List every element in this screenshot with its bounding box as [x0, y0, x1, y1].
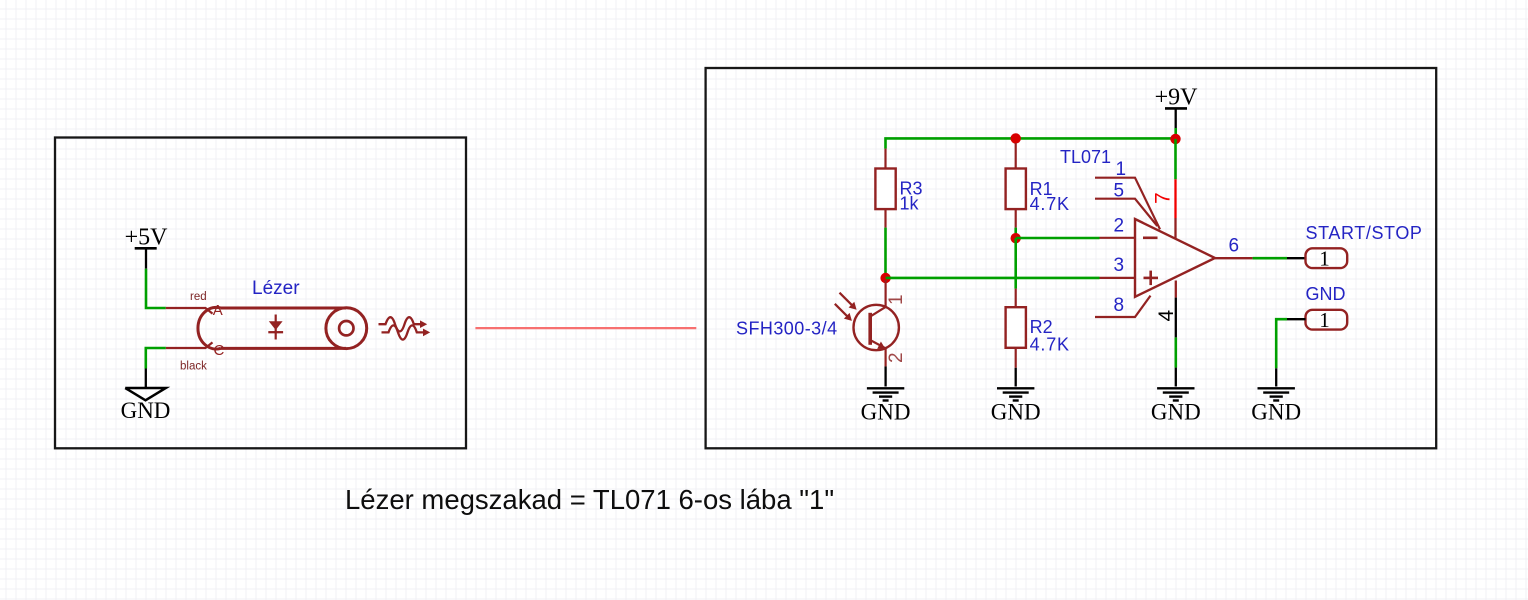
junction dot at R1 top: [1011, 133, 1021, 143]
svg-text:5: 5: [1114, 181, 1125, 202]
wire R3 bottom to node: [884, 228, 887, 279]
resistor R3: [875, 149, 922, 228]
svg-text:TL071: TL071: [1060, 147, 1111, 167]
svg-text:1k: 1k: [900, 194, 920, 214]
svg-text:START/STOP: START/STOP: [1306, 223, 1423, 243]
right frame box: [706, 68, 1437, 448]
phototransistor SFH300-3/4: [854, 280, 899, 366]
svg-text:red: red: [190, 291, 207, 303]
svg-text:4: 4: [1155, 310, 1178, 322]
connector GND pin 1: [1306, 308, 1348, 332]
op-amp pin 7 (V+): [1152, 139, 1176, 238]
svg-text:4.7K: 4.7K: [1030, 194, 1070, 214]
ground GND (left box, triangle style): [121, 388, 171, 423]
op-amp pin 8: [1095, 295, 1151, 317]
op-amp pin 4 (V-): [1155, 281, 1178, 387]
SFH pin number 2: [886, 352, 907, 363]
wire node to op-amp pin 3: [886, 277, 1100, 280]
op-amp pin 1: [1095, 159, 1160, 229]
label SFH300-3/4: [736, 319, 838, 339]
svg-text:6: 6: [1229, 236, 1240, 257]
junction dot at +9V: [1170, 134, 1180, 144]
label red: [190, 291, 207, 303]
wire node to op-amp pin 2: [1016, 237, 1100, 240]
svg-text:Lézer: Lézer: [252, 278, 300, 299]
op-amp pin 6 output: [1215, 236, 1253, 259]
svg-text:Lézer megszakad = TL071 6-os l: Lézer megszakad = TL071 6-os lába "1": [345, 484, 834, 515]
svg-text:8: 8: [1114, 295, 1125, 316]
op-amp U1 TL071: [1135, 219, 1215, 297]
resistor R2: [1006, 289, 1070, 368]
svg-text:GND: GND: [121, 398, 171, 423]
supply +5V: [125, 225, 169, 269]
svg-text:GND: GND: [861, 400, 911, 425]
laser anode pin: [166, 308, 213, 314]
label GND (connector): [1306, 284, 1346, 304]
ground GND (under SFH): [861, 388, 911, 424]
wire SFH emitter to GND: [884, 366, 886, 386]
wire R1 bottom to node: [1014, 228, 1017, 239]
ground GND (rightmost): [1251, 388, 1301, 424]
SFH pin number 1: [886, 294, 907, 305]
svg-text:7: 7: [1152, 192, 1175, 204]
wire R2 to GND: [1015, 368, 1017, 387]
svg-text:4.7K: 4.7K: [1030, 334, 1070, 354]
svg-text:GND: GND: [1306, 284, 1346, 304]
wire output to START/STOP: [1253, 257, 1306, 260]
wire +5V to laser anode: [146, 269, 166, 308]
label START/STOP: [1306, 223, 1423, 243]
svg-text:GND: GND: [991, 400, 1041, 425]
svg-text:SFH300-3/4: SFH300-3/4: [736, 319, 838, 339]
top supply bus wire: [886, 138, 1176, 148]
svg-text:1: 1: [886, 294, 907, 305]
wire connector GND to ground: [1276, 319, 1305, 386]
svg-text:+5V: +5V: [125, 225, 169, 251]
op-amp pin 2: [1100, 216, 1136, 238]
junction dot collector node: [880, 273, 890, 283]
wire R2 column: [1014, 238, 1017, 288]
label Lézer: [252, 278, 300, 299]
laser internal diode: [268, 315, 283, 340]
op-amp pin 3: [1100, 255, 1136, 278]
label black: [180, 360, 207, 372]
junction dot R1/R2/pin2: [1011, 233, 1021, 243]
caption text: [345, 484, 834, 515]
laser cathode pin: [166, 342, 213, 348]
svg-text:black: black: [180, 360, 207, 372]
inter-box link wire: [475, 327, 696, 329]
resistor R1: [1006, 143, 1070, 228]
laser beam waves: [379, 317, 431, 339]
svg-text:2: 2: [886, 352, 907, 363]
svg-text:3: 3: [1114, 255, 1125, 276]
svg-text:GND: GND: [1151, 400, 1201, 425]
ground GND (under op-amp): [1151, 388, 1201, 424]
svg-text:GND: GND: [1251, 400, 1301, 425]
left frame box: [55, 138, 466, 449]
laser LASER1 body: [198, 307, 367, 349]
label TL071: [1060, 147, 1111, 167]
wire laser cathode to GND: [146, 348, 166, 388]
light arrows: [835, 293, 857, 321]
op-amp pin 5: [1095, 181, 1157, 227]
connector START/STOP pin 1: [1306, 246, 1348, 270]
svg-text:A: A: [213, 302, 223, 319]
pin name C: [214, 342, 225, 359]
supply +9V: [1155, 85, 1199, 139]
svg-text:1: 1: [1319, 308, 1330, 332]
svg-text:1: 1: [1116, 159, 1127, 180]
svg-text:1: 1: [1319, 246, 1330, 270]
pin name A: [213, 302, 223, 319]
ground GND (under R2): [991, 388, 1041, 424]
svg-text:2: 2: [1114, 216, 1125, 237]
svg-text:+9V: +9V: [1155, 85, 1199, 111]
